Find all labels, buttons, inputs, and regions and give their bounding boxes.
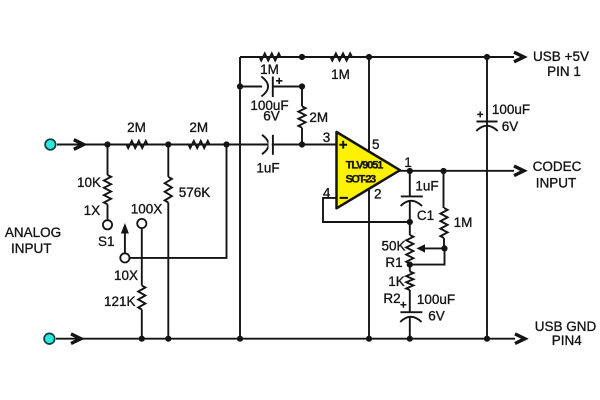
node: pin1 output 1M tap: [440, 168, 446, 174]
wire: R2 to 100uF cap: [409, 290, 411, 312]
svg-text:PIN4: PIN4: [552, 333, 583, 348]
node: 10K branch on input line: [104, 141, 110, 147]
wire: feedback node to R1: [409, 222, 411, 235]
resistor 1M (feedback to pin5 node) zigzag: [331, 53, 353, 60]
svg-text:ANALOG: ANALOG: [5, 225, 61, 240]
svg-text:100X: 100X: [131, 202, 163, 217]
node: bypass cap on ground rail: [407, 336, 413, 342]
polarity + of bias bypass 100uF: [400, 302, 406, 308]
resistor R2 1K zigzag: [406, 272, 413, 291]
svg-text:1X: 1X: [84, 203, 101, 218]
switch S1 contact 1X: [103, 220, 112, 229]
node: 2M vertical on input line: [299, 141, 305, 147]
wire: left vertical rail (top rail to ground): [239, 57, 241, 339]
wire: R1 bottom to R2: [409, 265, 411, 272]
svg-text:INPUT: INPUT: [536, 176, 577, 191]
svg-text:10X: 10X: [114, 268, 138, 283]
svg-text:TLV9051: TLV9051: [346, 159, 383, 171]
svg-text:100uF: 100uF: [417, 292, 455, 307]
polarity + of top-left 100uF: [276, 78, 282, 84]
terminal: analog input signal (cyan): [45, 139, 56, 150]
svg-text:R2: R2: [383, 291, 400, 306]
svg-text:5: 5: [372, 137, 380, 152]
node: left rail on ground rail: [237, 336, 243, 342]
capacitor 100uF 6V (top-left, curved plate): [261, 77, 268, 97]
node: 121K on ground rail: [139, 336, 145, 342]
wire: wiper node to R1 bottom: [410, 248, 445, 264]
wire: op-amp output pin 1 to codec: [399, 170, 514, 172]
arrow: signal flow on analog input line: [74, 140, 84, 150]
svg-text:1uF: 1uF: [256, 160, 279, 175]
capacitor 100uF 6V (supply bypass, curved plate): [476, 126, 497, 131]
resistor 1M (top-left feedback) zigzag: [260, 53, 281, 60]
wire: pin 5 to +5V rail: [368, 57, 370, 152]
svg-text:2M: 2M: [127, 120, 146, 135]
resistor 2M (input, second) zigzag: [189, 141, 210, 148]
node: 1M junction on +5V rail: [299, 54, 305, 60]
op-amp non-inverting + marking: [339, 141, 347, 149]
node: 576K branch on input line: [165, 141, 171, 147]
op-amp U1 TLV9051 (triangle body): [337, 132, 401, 208]
svg-text:CODEC: CODEC: [533, 159, 582, 174]
node: feedback C1 R1 junction: [407, 219, 413, 225]
svg-text:1uF: 1uF: [415, 178, 438, 193]
capacitor C1 1uF (curved plate): [401, 201, 422, 206]
mask: gap of 1uF coupling cap between plates: [269, 141, 272, 148]
resistor 10K zigzag: [104, 175, 111, 204]
wire: inverting input feedback loop: [323, 198, 410, 222]
svg-text:1K: 1K: [388, 274, 405, 289]
node: wiper 1M junction: [441, 245, 447, 251]
node: right rail on +5V rail: [484, 54, 490, 60]
capacitor 100uF 6V (top-left, straight plate): [272, 77, 274, 98]
svg-text:INPUT: INPUT: [11, 241, 52, 256]
capacitor 100uF 6V (bias bypass, curved plate): [400, 317, 421, 322]
svg-text:6V: 6V: [502, 119, 519, 134]
svg-text:1: 1: [404, 155, 412, 170]
svg-text:2M: 2M: [309, 110, 328, 125]
arrow: S1 wiper arm: [124, 232, 126, 253]
arrow: R1 wiper: [424, 247, 445, 249]
wire: 100X contact to 121K: [141, 228, 143, 286]
wire: pin1 node down to 1M: [443, 171, 445, 208]
wire: bottom USB ground rail: [56, 338, 515, 340]
wire: S1 pole to main line node: [129, 145, 226, 258]
node: R1 bottom junction: [407, 262, 413, 268]
node: cap row right: [299, 83, 305, 89]
switch S1 contact 100X: [137, 219, 146, 228]
arrow: USB +5V output arrowhead: [514, 52, 524, 62]
arrow: CODEC output arrowhead: [514, 166, 524, 176]
svg-text:USB GND: USB GND: [535, 319, 597, 334]
svg-text:1M: 1M: [260, 62, 279, 77]
resistor 121K zigzag: [138, 286, 145, 310]
polarity + of supply bypass 100uF: [477, 111, 483, 117]
wire: 121K to ground rail: [141, 310, 143, 339]
svg-text:3: 3: [323, 130, 331, 145]
svg-text:1M: 1M: [454, 215, 473, 230]
node: 576K on ground rail: [165, 336, 171, 342]
svg-text:6V: 6V: [263, 108, 280, 123]
svg-text:SOT-23: SOT-23: [346, 173, 377, 185]
wire: 10K to 1X contact: [107, 204, 109, 220]
capacitor C1 1uF (straight plate): [401, 195, 423, 197]
node: cap row on left rail: [237, 83, 243, 89]
node: pin2 on ground rail: [366, 336, 372, 342]
wire: 1M to wiper node: [443, 238, 445, 248]
svg-text:10K: 10K: [77, 175, 101, 190]
node: right rail on ground rail: [484, 336, 490, 342]
svg-text:S1: S1: [98, 234, 115, 249]
svg-text:R1: R1: [385, 255, 402, 270]
wire: 576K branch lead top: [167, 145, 169, 177]
node: pin1 output C1 tap: [407, 168, 413, 174]
svg-text:USB +5V: USB +5V: [533, 49, 589, 64]
arrow: ground rail direction arrow near input: [71, 334, 81, 344]
node: pin5 on +5V rail: [366, 54, 372, 60]
arrow: USB GND output arrowhead: [515, 334, 525, 344]
resistor 1M (output divider) zigzag: [440, 208, 447, 238]
svg-text:100uF: 100uF: [492, 102, 530, 117]
wire: pin 2 to ground rail: [368, 190, 370, 339]
wire: bypass cap to ground rail: [409, 317, 411, 339]
capacitor 100uF 6V (bias bypass, straight plate): [400, 311, 422, 313]
resistor 2M (input, first) zigzag: [127, 141, 148, 148]
capacitor 1uF (input coupling, straight plate): [272, 135, 274, 155]
wire: 576K to ground rail: [167, 203, 169, 339]
svg-text:C1: C1: [417, 208, 434, 223]
wire: right vertical rail (+5V to ground, crosses codec line): [486, 57, 488, 339]
wire: 100uF/1M feedback row (left): [240, 86, 262, 88]
potentiometer R1 50K zigzag: [406, 235, 413, 264]
svg-text:1M: 1M: [331, 67, 350, 82]
wire: 2M vertical resistor leads: [301, 87, 303, 145]
wire: 100uF/1M feedback row (right): [273, 86, 302, 88]
resistor 2M (vertical, bias) zigzag: [298, 106, 305, 127]
svg-text:PIN 1: PIN 1: [547, 64, 581, 79]
wire: top +5V supply rail: [240, 56, 514, 58]
capacitor 100uF 6V (supply bypass, straight plate): [477, 121, 498, 123]
svg-text:121K: 121K: [104, 294, 136, 309]
svg-text:576K: 576K: [179, 185, 211, 200]
svg-text:2: 2: [374, 186, 382, 201]
svg-text:50K: 50K: [381, 238, 405, 253]
op-amp inverting - marking: [340, 197, 348, 199]
capacitor 1uF (input coupling, curved plate): [262, 135, 269, 154]
wire: main input signal line (analog input to op-amp pin 3): [57, 144, 337, 146]
svg-text:6V: 6V: [428, 309, 445, 324]
svg-text:2M: 2M: [189, 120, 208, 135]
resistor 576K zigzag: [165, 177, 172, 203]
wire: C1 to feedback node: [409, 201, 411, 222]
switch S1 pole (10X): [120, 253, 129, 262]
wire: pin1 node to C1: [409, 171, 411, 196]
node: S1 pole wire on input line: [223, 141, 229, 147]
terminal: analog input ground (cyan): [44, 333, 55, 344]
wire: 10K branch lead: [107, 145, 109, 176]
